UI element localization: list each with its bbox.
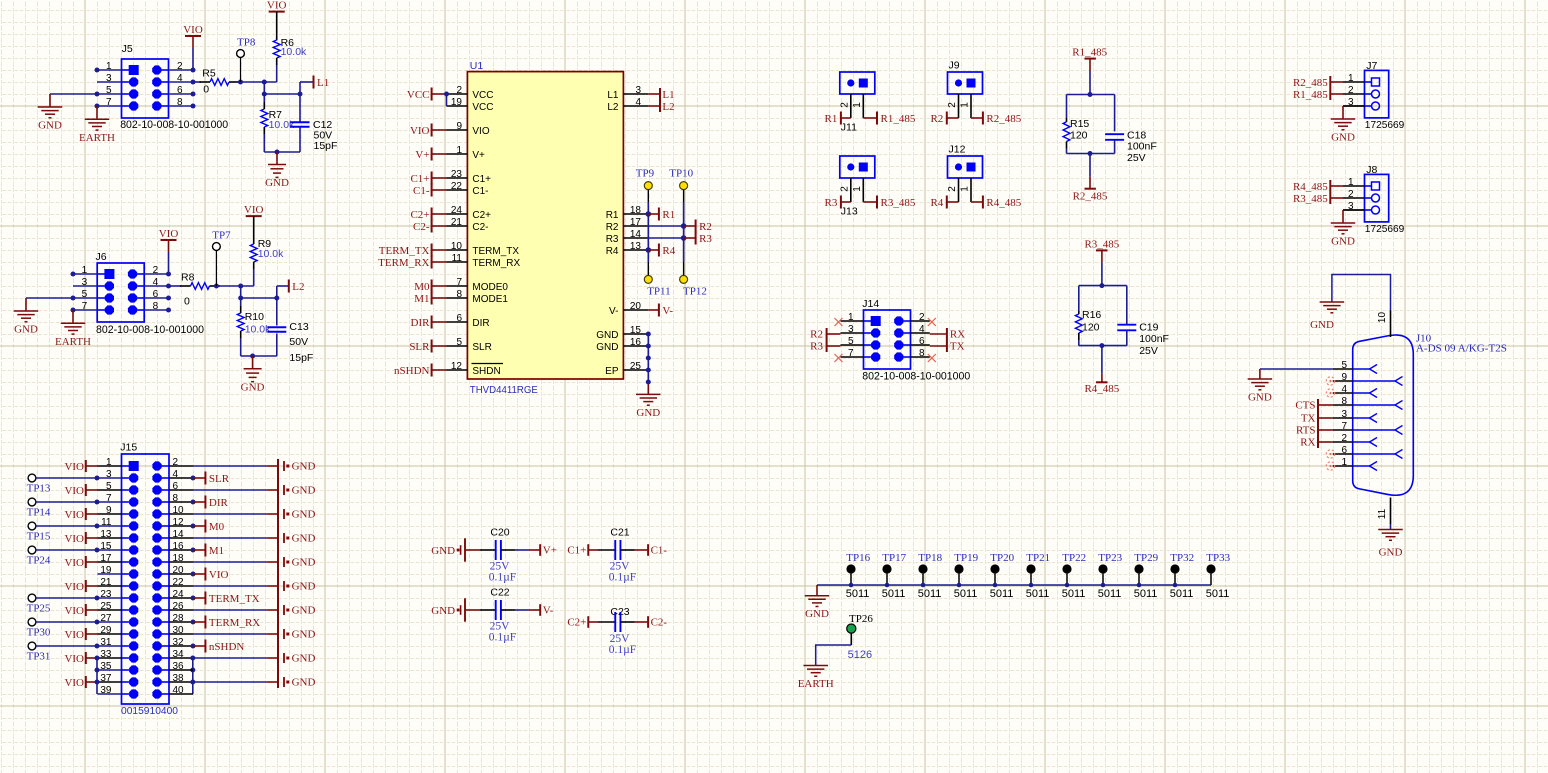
junction dots on J6 VIO_net wire <box>214 284 219 289</box>
svg-text:R3: R3 <box>699 233 712 245</box>
svg-text:1725669: 1725669 <box>1365 223 1405 235</box>
svg-text:25V: 25V <box>610 561 631 573</box>
U1 right pins <box>623 93 648 95</box>
svg-text:5011: 5011 <box>1206 588 1230 600</box>
net label C2+ at C23 <box>587 616 589 628</box>
svg-text:10.0k: 10.0k <box>245 323 271 335</box>
wire TP10 to TP12 through R2 R3 <box>683 190 685 202</box>
svg-text:100nF: 100nF <box>1127 141 1157 153</box>
net label R4 <box>648 249 659 251</box>
svg-text:5126: 5126 <box>848 649 872 661</box>
svg-text:VIO: VIO <box>159 228 179 240</box>
svg-text:9: 9 <box>1341 372 1347 383</box>
svg-text:R3_485: R3_485 <box>1293 193 1328 205</box>
svg-text:R1: R1 <box>825 113 838 125</box>
svg-text:25V: 25V <box>490 621 511 633</box>
svg-text:5011: 5011 <box>1170 588 1194 600</box>
resistor R8 <box>180 285 191 287</box>
svg-text:C2-: C2- <box>413 221 430 233</box>
J15 unlabeled right pins 36 40 <box>169 669 193 671</box>
svg-text:11: 11 <box>452 253 463 264</box>
svg-text:V-: V- <box>609 306 618 317</box>
svg-text:TP8: TP8 <box>237 37 256 49</box>
svg-text:1: 1 <box>852 102 863 108</box>
svg-text:J15: J15 <box>120 442 137 454</box>
svg-text:V+: V+ <box>472 150 485 161</box>
svg-text:0.1µF: 0.1µF <box>489 632 516 644</box>
power port VIO at J5 pin 2 <box>185 35 201 37</box>
svg-text:L2: L2 <box>607 102 619 113</box>
svg-text:L1: L1 <box>607 90 619 101</box>
svg-text:TERM_TX: TERM_TX <box>472 246 519 257</box>
svg-text:12: 12 <box>451 361 463 372</box>
R16 C19 bottom wire <box>1079 345 1127 347</box>
svg-text:802-10-008-10-001000: 802-10-008-10-001000 <box>862 370 970 382</box>
J6 pin end junction dots <box>71 272 76 277</box>
svg-text:5011: 5011 <box>1098 588 1122 600</box>
svg-text:TP23: TP23 <box>1098 552 1122 564</box>
svg-text:C1-: C1- <box>413 185 430 197</box>
svg-text:L2: L2 <box>662 101 674 113</box>
svg-text:TP32: TP32 <box>1170 552 1194 564</box>
svg-text:C19: C19 <box>1139 322 1158 334</box>
svg-text:1: 1 <box>960 102 971 108</box>
svg-text:TP31: TP31 <box>27 650 51 662</box>
svg-text:6: 6 <box>456 313 462 324</box>
capacitor C13 50V 15pF <box>276 298 278 326</box>
net label L1 <box>299 82 301 94</box>
svg-text:22: 22 <box>451 181 463 192</box>
svg-text:DIR: DIR <box>209 497 229 509</box>
svg-text:TP25: TP25 <box>27 602 51 614</box>
svg-text:25V: 25V <box>1139 345 1158 357</box>
connector J6 body <box>97 263 144 322</box>
svg-text:R5: R5 <box>202 68 216 80</box>
svg-text:R1_485: R1_485 <box>881 113 916 125</box>
wire J10 pin10 to GND <box>1332 275 1391 311</box>
svg-text:TP7: TP7 <box>212 230 231 242</box>
svg-text:VIO: VIO <box>64 605 84 617</box>
net label V- at C22 <box>539 604 541 616</box>
svg-text:15pF: 15pF <box>314 140 338 152</box>
svg-text:3: 3 <box>635 85 641 96</box>
svg-text:1725669: 1725669 <box>1365 119 1405 131</box>
net label R1 <box>648 213 659 215</box>
wire J10 pin11 to GND <box>1390 524 1392 530</box>
svg-text:EARTH: EARTH <box>798 678 834 690</box>
connector J10 D-sub body <box>1353 335 1414 495</box>
svg-text:GND: GND <box>596 342 618 353</box>
svg-text:2: 2 <box>947 186 958 192</box>
svg-text:GND: GND <box>292 509 316 521</box>
svg-text:TERM_TX: TERM_TX <box>379 245 430 257</box>
J15 internal pin decorations <box>129 461 139 471</box>
J10 pin 11 bottom <box>1390 498 1392 525</box>
svg-text:TERM_RX: TERM_RX <box>472 258 520 269</box>
svg-text:GND: GND <box>636 407 660 419</box>
svg-text:U1: U1 <box>470 60 484 72</box>
svg-text:1: 1 <box>1341 457 1347 468</box>
svg-text:TP26: TP26 <box>849 613 873 625</box>
svg-text:TP20: TP20 <box>990 552 1014 564</box>
svg-text:DIR: DIR <box>472 318 489 329</box>
svg-text:7: 7 <box>456 277 462 288</box>
svg-text:TP33: TP33 <box>1206 552 1230 564</box>
svg-text:R2: R2 <box>930 113 943 125</box>
svg-text:M0: M0 <box>209 521 225 533</box>
svg-text:V+: V+ <box>543 544 557 556</box>
capacitor C22 0.1uF 25V <box>465 609 480 611</box>
svg-text:VIO: VIO <box>64 485 84 497</box>
J15 right GND bus bar <box>277 459 279 688</box>
svg-text:J12: J12 <box>949 144 966 156</box>
J15 left testpoints <box>28 474 36 482</box>
svg-text:0.1µF: 0.1µF <box>609 572 636 584</box>
svg-text:GND: GND <box>431 605 455 617</box>
svg-text:1: 1 <box>1348 73 1354 84</box>
net label V- at U1 pin20 <box>648 309 659 311</box>
J6 internal pin squares/dots <box>104 269 114 279</box>
testpoint TP10 <box>680 182 688 190</box>
ground GND at J10 pin10 <box>1320 301 1345 303</box>
resistor R10 10.0k <box>240 298 242 306</box>
svg-text:R3: R3 <box>606 234 619 245</box>
power port R4_485 below R16 <box>1101 346 1103 374</box>
svg-text:2: 2 <box>947 102 958 108</box>
svg-text:2: 2 <box>1348 189 1354 200</box>
svg-text:20: 20 <box>630 301 642 312</box>
IC U1 body THVD4411RGE <box>467 72 623 379</box>
svg-text:25V: 25V <box>490 561 511 573</box>
svg-text:TP12: TP12 <box>683 286 707 298</box>
svg-text:VCC: VCC <box>407 89 430 101</box>
power port VIO at J6 pin 2 <box>161 239 177 241</box>
svg-text:C2-: C2- <box>472 222 488 233</box>
svg-text:120: 120 <box>1082 322 1100 334</box>
svg-text:VIO: VIO <box>244 204 264 216</box>
J9 pins <box>958 94 960 118</box>
svg-text:TP10: TP10 <box>669 167 693 179</box>
svg-text:17: 17 <box>630 217 642 228</box>
svg-text:4: 4 <box>635 97 641 108</box>
svg-text:TP16: TP16 <box>846 552 870 564</box>
power port VIO above R9 <box>246 215 262 217</box>
ground GND below U1 <box>636 393 661 395</box>
J10 left pins and contacts <box>1333 368 1353 370</box>
svg-text:9: 9 <box>456 121 462 132</box>
svg-text:TP19: TP19 <box>954 552 978 564</box>
net label R1_485 at J7 pin2 <box>1330 93 1343 95</box>
svg-text:25: 25 <box>630 361 642 372</box>
svg-text:R2_485: R2_485 <box>1073 190 1108 202</box>
svg-text:J14: J14 <box>862 298 879 310</box>
net labels RX TX at J14 <box>930 333 947 335</box>
connector J7 body <box>1365 70 1389 118</box>
svg-text:100nF: 100nF <box>1139 333 1169 345</box>
svg-text:C1-: C1- <box>472 186 488 197</box>
svg-text:GND: GND <box>292 605 316 617</box>
svg-text:GND: GND <box>292 653 316 665</box>
svg-text:GND: GND <box>292 533 316 545</box>
J10 pin 10 top <box>1390 311 1392 338</box>
svg-text:15pF: 15pF <box>289 352 313 364</box>
resistor R6 10.0k <box>276 12 278 40</box>
J15 right tie wire pins 34-36-38-40 <box>192 658 194 694</box>
testpoint TP12 <box>680 275 688 283</box>
svg-text:0.1µF: 0.1µF <box>489 572 516 584</box>
wire J10 pin5 to GND <box>1260 368 1333 370</box>
testpoint TP11 <box>644 275 652 283</box>
svg-text:TP15: TP15 <box>27 530 51 542</box>
svg-text:2: 2 <box>839 102 850 108</box>
wire U1 GND EP pins <box>647 334 649 382</box>
connector J12 body <box>948 156 983 178</box>
svg-text:GND: GND <box>241 381 265 393</box>
J13 pins <box>850 178 852 202</box>
wire U1 pin17 R2 to TP10 column <box>648 225 683 227</box>
svg-text:6: 6 <box>1341 445 1347 456</box>
svg-text:C1+: C1+ <box>567 544 586 556</box>
svg-text:GND: GND <box>1248 392 1272 404</box>
net label C2- at C23 <box>647 616 649 628</box>
testpoint TP32 5011 <box>1170 564 1179 573</box>
svg-text:GND: GND <box>292 557 316 569</box>
ground GND below R7/C12 <box>276 152 278 165</box>
svg-text:TERM_RX: TERM_RX <box>209 617 260 629</box>
svg-text:L1: L1 <box>317 77 329 89</box>
no-ERC markers on J10 pins 9 4 6 1 <box>1326 377 1334 385</box>
svg-text:2: 2 <box>839 186 850 192</box>
wire J6 pin5 to GND <box>26 297 73 299</box>
ground GND at J7 pin3 <box>1343 105 1365 107</box>
svg-text:VIO: VIO <box>64 461 84 473</box>
power port VIO above R6 <box>269 11 285 13</box>
earth symbol at TP26 <box>803 665 828 667</box>
svg-text:TERM_TX: TERM_TX <box>209 593 260 605</box>
R16 C19 top wire <box>1079 285 1127 287</box>
testpoint bus wire <box>817 584 1211 586</box>
testpoint TP29 5011 <box>1134 564 1143 573</box>
svg-text:25V: 25V <box>610 633 631 645</box>
svg-text:0.1µF: 0.1µF <box>609 644 636 656</box>
power port R1_485 above R15 <box>1085 58 1096 60</box>
connector J14 body <box>864 310 911 369</box>
svg-text:GND: GND <box>14 324 38 336</box>
svg-text:J11: J11 <box>841 122 857 134</box>
capacitor C23 0.1uF 25V <box>588 621 597 623</box>
svg-text:0015910400: 0015910400 <box>121 706 178 717</box>
svg-text:1: 1 <box>456 145 462 156</box>
svg-text:CTS: CTS <box>1295 400 1315 412</box>
connector J8 body <box>1365 174 1389 222</box>
svg-text:5011: 5011 <box>1062 588 1086 600</box>
R15 C18 top wire <box>1067 94 1115 96</box>
svg-text:10.0k: 10.0k <box>258 248 284 260</box>
svg-text:GND: GND <box>292 485 316 497</box>
svg-text:23: 23 <box>451 169 463 180</box>
svg-text:R4_485: R4_485 <box>986 197 1021 209</box>
svg-text:5: 5 <box>1341 360 1347 371</box>
svg-text:MODE1: MODE1 <box>472 294 508 305</box>
J14 internal pin squares/dots <box>871 316 881 326</box>
svg-text:EARTH: EARTH <box>55 336 91 348</box>
svg-text:C22: C22 <box>490 587 509 599</box>
svg-text:5011: 5011 <box>954 588 978 600</box>
testpoint TP22 5011 <box>1062 564 1071 573</box>
capacitor C12 50V 15pF <box>299 94 301 122</box>
svg-text:M1: M1 <box>414 293 429 305</box>
svg-text:R16: R16 <box>1082 309 1101 321</box>
svg-text:10: 10 <box>1377 312 1388 324</box>
J12 pins <box>958 178 960 202</box>
svg-text:J5: J5 <box>122 43 133 55</box>
J5 left pin wires <box>97 69 122 71</box>
svg-text:C1-: C1- <box>651 544 668 556</box>
svg-text:15: 15 <box>630 325 642 336</box>
svg-text:5011: 5011 <box>846 588 870 600</box>
J15 right signal net labels <box>169 477 193 479</box>
U1 left pins <box>447 93 468 95</box>
svg-text:L1: L1 <box>662 89 674 101</box>
svg-text:DIR: DIR <box>411 317 431 329</box>
ground GND left of J6 <box>25 298 27 311</box>
svg-text:TX: TX <box>950 341 965 353</box>
resistor R15 120 <box>1066 95 1068 119</box>
svg-text:R3: R3 <box>825 197 838 209</box>
svg-text:R1: R1 <box>606 210 619 221</box>
svg-text:SLR: SLR <box>409 341 430 353</box>
wire TP9 to TP11 through R1 R4 <box>647 190 649 202</box>
wire R5 to R6 node <box>237 81 277 83</box>
svg-text:8: 8 <box>1341 396 1347 407</box>
svg-text:EARTH: EARTH <box>79 132 115 144</box>
connector J11 body <box>840 72 875 94</box>
testpoint TP33 5011 <box>1206 564 1215 573</box>
svg-text:R4_485: R4_485 <box>1084 383 1119 395</box>
svg-text:nSHDN: nSHDN <box>209 641 245 653</box>
svg-text:V-: V- <box>662 305 673 317</box>
svg-text:J9: J9 <box>949 60 960 72</box>
svg-text:120: 120 <box>1070 129 1088 141</box>
svg-text:50V: 50V <box>289 336 308 348</box>
svg-text:GND: GND <box>1310 319 1334 331</box>
no-ERC X marks on J14 pins 1 2 7 8 <box>835 318 843 326</box>
connector J5 body <box>122 59 169 118</box>
svg-text:R3_485: R3_485 <box>881 197 916 209</box>
svg-text:8: 8 <box>456 289 462 300</box>
J5 pin end junction dots <box>95 68 100 73</box>
svg-text:R8: R8 <box>181 272 195 284</box>
svg-text:RTS: RTS <box>1296 425 1316 437</box>
svg-text:VIO: VIO <box>410 125 430 137</box>
connector J13 body <box>840 156 875 178</box>
net label L1 at U1 pin3 <box>648 93 660 95</box>
svg-text:TERM_RX: TERM_RX <box>378 257 429 269</box>
svg-text:5011: 5011 <box>918 588 942 600</box>
resistor R16 120 <box>1078 286 1080 311</box>
testpoint TP16 5011 <box>846 564 855 573</box>
svg-text:VCC: VCC <box>472 90 493 101</box>
wire J6 pin4 to R8 <box>169 285 182 287</box>
net label L2 <box>276 286 278 298</box>
net label C1- at C21 <box>647 544 649 556</box>
wire J5 pin4 to R5 <box>193 81 201 83</box>
svg-text:2: 2 <box>1348 85 1354 96</box>
capacitor C19 100nF 25V <box>1126 286 1128 325</box>
svg-text:0: 0 <box>203 84 209 96</box>
svg-text:1: 1 <box>960 186 971 192</box>
svg-text:1: 1 <box>852 186 863 192</box>
svg-text:R4: R4 <box>662 245 675 257</box>
svg-text:2: 2 <box>1341 433 1347 444</box>
svg-text:R3_485: R3_485 <box>1084 239 1119 251</box>
ground GND at testpoint bus <box>816 585 818 596</box>
svg-text:VIO: VIO <box>64 533 84 545</box>
R15 C18 bottom wire <box>1067 153 1115 155</box>
svg-text:GND: GND <box>596 330 618 341</box>
svg-text:GND: GND <box>292 461 316 473</box>
J15 right GND ports <box>169 465 193 467</box>
svg-text:TP17: TP17 <box>882 552 906 564</box>
svg-text:TP18: TP18 <box>918 552 942 564</box>
wire J5 pin5 to GND <box>50 93 97 95</box>
svg-text:V+: V+ <box>415 149 429 161</box>
svg-text:C2+: C2+ <box>567 616 586 628</box>
svg-text:802-10-008-10-001000: 802-10-008-10-001000 <box>120 119 228 131</box>
ground GND at J10 pin11 <box>1378 529 1403 531</box>
svg-text:GND: GND <box>805 608 829 620</box>
svg-text:5: 5 <box>456 337 462 348</box>
svg-text:GND: GND <box>1331 132 1355 144</box>
testpoint TP23 5011 <box>1098 564 1107 573</box>
testpoint TP21 5011 <box>1026 564 1035 573</box>
net label R2 <box>684 225 696 227</box>
svg-text:VIO: VIO <box>64 581 84 593</box>
svg-text:GND: GND <box>1331 236 1355 248</box>
svg-text:C13: C13 <box>289 321 308 333</box>
svg-text:18: 18 <box>630 205 642 216</box>
svg-text:C2-: C2- <box>651 616 668 628</box>
J8 pins <box>1343 185 1365 187</box>
U1 left net labels <box>432 93 447 95</box>
svg-text:VIO: VIO <box>64 509 84 521</box>
svg-text:GND: GND <box>38 120 62 132</box>
earth symbol below J5 pin7 <box>96 106 98 119</box>
wire node to L1 level <box>263 82 265 94</box>
power port R3_485 above R16 <box>1096 249 1108 251</box>
wire R8 to R9 node <box>217 285 254 287</box>
svg-text:TP14: TP14 <box>27 506 51 518</box>
testpoint TP17 5011 <box>882 564 891 573</box>
svg-text:R2: R2 <box>810 329 823 341</box>
svg-text:4: 4 <box>1341 384 1347 395</box>
svg-text:R2_485: R2_485 <box>986 113 1021 125</box>
svg-text:M0: M0 <box>414 281 430 293</box>
ground GND below R10/C13 <box>252 356 254 369</box>
wire VCC pin2 to pin19 <box>446 94 448 106</box>
testpoint TP8 <box>237 50 245 58</box>
svg-text:nSHDN: nSHDN <box>394 365 430 377</box>
svg-text:R1_485: R1_485 <box>1072 47 1107 59</box>
svg-text:1: 1 <box>1348 177 1354 188</box>
net labels R2 R3 at J14 <box>827 333 841 335</box>
J14 left pin stubs <box>841 320 864 322</box>
svg-text:TP30: TP30 <box>27 626 51 638</box>
connector J15 body <box>122 454 170 704</box>
svg-text:VIO: VIO <box>209 569 229 581</box>
svg-text:TP9: TP9 <box>636 167 655 179</box>
capacitor C20 0.1uF 25V <box>465 549 480 551</box>
